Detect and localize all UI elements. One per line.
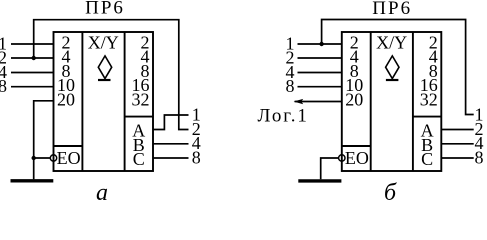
svg-text:а: а: [96, 180, 108, 201]
svg-text:X/Y: X/Y: [376, 33, 407, 53]
svg-text:8: 8: [0, 76, 7, 96]
svg-text:C: C: [421, 149, 433, 169]
svg-text:32: 32: [420, 89, 438, 109]
svg-text:EO: EO: [345, 148, 369, 168]
svg-text:б: б: [384, 180, 397, 201]
svg-text:Лог.1: Лог.1: [258, 106, 309, 127]
svg-text:ПР6: ПР6: [85, 0, 125, 19]
svg-text:8: 8: [475, 147, 484, 167]
svg-text:C: C: [133, 149, 145, 169]
svg-text:8: 8: [192, 147, 201, 167]
svg-text:ПР6: ПР6: [372, 0, 412, 19]
svg-text:EO: EO: [57, 148, 81, 168]
svg-text:20: 20: [345, 89, 363, 109]
svg-text:8: 8: [286, 76, 295, 96]
svg-text:32: 32: [132, 89, 150, 109]
svg-text:20: 20: [57, 89, 75, 109]
svg-text:X/Y: X/Y: [88, 33, 119, 53]
